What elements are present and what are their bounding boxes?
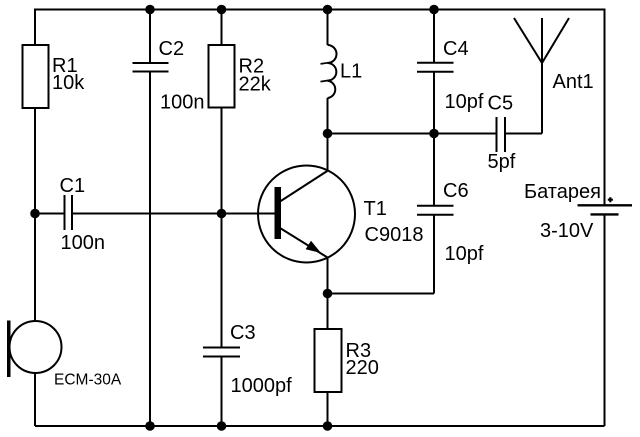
svg-text:22k: 22k (239, 73, 272, 95)
svg-text:1000pf: 1000pf (231, 375, 293, 397)
svg-text:C4: C4 (443, 38, 469, 60)
svg-text:5pf: 5pf (488, 151, 516, 173)
svg-text:100n: 100n (61, 232, 106, 254)
svg-text:ECM-30A: ECM-30A (54, 371, 122, 388)
svg-text:C2: C2 (159, 38, 185, 60)
svg-text:3-10V: 3-10V (540, 220, 594, 242)
svg-text:220: 220 (346, 357, 379, 379)
svg-text:T1: T1 (364, 198, 387, 220)
svg-text:C5: C5 (488, 92, 514, 114)
svg-text:10k: 10k (52, 72, 85, 94)
svg-text:C9018: C9018 (365, 224, 424, 246)
svg-text:C1: C1 (60, 175, 86, 197)
svg-text:C6: C6 (443, 180, 469, 202)
svg-text:10pf: 10pf (445, 243, 484, 265)
svg-text:Ant1: Ant1 (553, 71, 594, 93)
svg-text:10pf: 10pf (445, 91, 484, 113)
svg-text:L1: L1 (340, 60, 362, 82)
svg-text:C3: C3 (230, 322, 256, 344)
svg-text:100n: 100n (160, 91, 205, 113)
svg-text:Батарея: Батарея (524, 181, 601, 203)
